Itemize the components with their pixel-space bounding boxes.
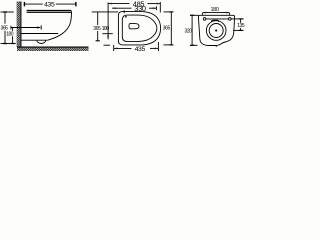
pan top thick line xyxy=(27,10,72,12)
fixing hole right xyxy=(229,18,232,21)
svg-text:135: 135 xyxy=(237,23,245,29)
pan bottom line xyxy=(21,39,48,41)
outlet centre tick xyxy=(40,25,42,29)
extension vertical bottom-right (plan view) xyxy=(157,42,159,51)
extension vertical bottom-left (plan view) xyxy=(113,45,115,51)
dim 135 vertical (rear view) xyxy=(240,19,242,23)
extension line bottom (side view) xyxy=(1,43,16,45)
svg-text:365: 365 xyxy=(93,26,101,32)
extension vertical right (plan 485) xyxy=(159,2,161,13)
wall hatch xyxy=(17,2,21,48)
svg-text:435: 435 xyxy=(135,46,146,53)
extension line top-left (plan view) xyxy=(92,11,118,13)
outlet outer circle xyxy=(206,21,226,41)
dim 365 vertical (plan view right) xyxy=(170,12,172,45)
dim 180 vertical (plan view left) xyxy=(107,12,109,40)
hinge dot xyxy=(125,16,127,18)
wall face line xyxy=(20,2,22,48)
extension line top-right (plan view) xyxy=(164,11,173,13)
pan seat lower line xyxy=(27,11,72,13)
short extension line lower (plan view left) xyxy=(104,44,111,46)
dim 180 top (rear view) xyxy=(203,12,230,14)
extension line bottom-right (plan view) xyxy=(164,44,173,46)
dim 435 bottom (plan view) xyxy=(114,47,132,49)
plan bowl outer outline xyxy=(118,12,160,45)
fixing hole left xyxy=(203,18,206,21)
svg-text:180: 180 xyxy=(210,7,218,13)
extension line bottom (rear 320) xyxy=(190,44,197,46)
dim 485 top (plan view) xyxy=(108,3,129,5)
dim 365 vertical (plan view left) xyxy=(97,12,99,25)
dim 330 (plan view) xyxy=(112,7,132,9)
svg-text:320: 320 xyxy=(185,28,193,34)
extension line top (side view) xyxy=(1,11,14,13)
svg-text:330: 330 xyxy=(134,4,146,13)
pan underside line xyxy=(21,33,58,35)
hinge centre tick xyxy=(123,10,125,13)
line between holes xyxy=(206,18,228,20)
rear body outline xyxy=(198,15,234,45)
dim 435 top (side view) xyxy=(24,3,42,5)
top boss on outlet xyxy=(212,20,219,22)
outlet centreline leader (side view) xyxy=(11,27,40,29)
bottom centre tick (rear view) xyxy=(215,46,217,48)
plan bowl inner rim xyxy=(122,15,157,41)
extension line outlet centre (rear 135) xyxy=(233,29,243,31)
outlet mid circle xyxy=(209,24,223,38)
extension line top (rear 320) xyxy=(190,14,198,16)
outlet centre dot xyxy=(215,29,217,31)
floor line xyxy=(17,46,89,48)
dim 180 vertical (side view) xyxy=(12,28,14,31)
svg-text:435: 435 xyxy=(44,1,55,8)
outlet bump xyxy=(37,40,46,43)
trap hole D-shape xyxy=(129,24,139,29)
svg-text:180: 180 xyxy=(6,31,14,37)
leader arrowhead xyxy=(37,26,41,28)
floor hatch xyxy=(17,47,89,51)
extension line holes (rear 135) xyxy=(231,18,243,20)
dim 365 vertical (side view) xyxy=(4,12,6,24)
extension vertical left (plan 485) xyxy=(107,2,109,12)
pan front profile curve xyxy=(48,11,72,40)
svg-text:365: 365 xyxy=(163,26,171,32)
svg-text:180: 180 xyxy=(102,26,110,32)
short extension line (plan view left) xyxy=(102,33,113,35)
dim 320 vertical (rear view) xyxy=(191,15,193,45)
